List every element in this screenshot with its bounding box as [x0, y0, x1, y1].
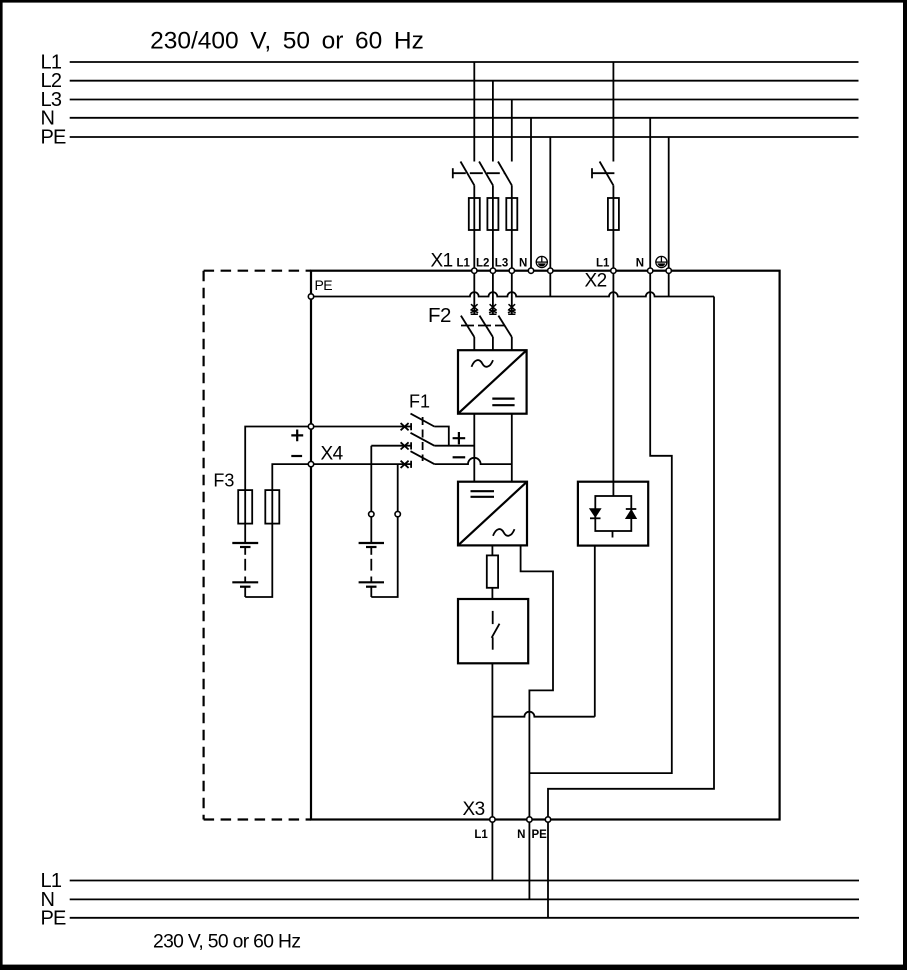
wire: F2 L2 to rectifier — [492, 337, 494, 350]
minus sign at DC link — [453, 456, 466, 458]
X4 terminal minus — [308, 461, 313, 466]
wire: X2 L1 to static switch — [612, 271, 614, 482]
F2 pole L3 blade — [498, 316, 511, 337]
L1 bus (bottom) — [70, 880, 859, 882]
bypass switch blade — [600, 162, 614, 186]
fuse L1 (input) — [469, 198, 480, 230]
svg-text:X3: X3 — [463, 799, 485, 820]
battery cabinet dashed enclosure — [204, 271, 311, 820]
X1 terminal PE — [548, 268, 553, 273]
F2 pole L1 connector symbol — [470, 304, 478, 314]
F1 pole 2 connector symbol — [401, 442, 412, 449]
N bus (bottom) — [70, 898, 859, 900]
wire: F1 pole 2 to DC+ rail — [434, 445, 474, 447]
svg-text:X2: X2 — [585, 271, 607, 292]
svg-text:230 V, 50 or 60 Hz: 230 V, 50 or 60 Hz — [153, 932, 300, 953]
wire: inverter N out — [521, 545, 553, 819]
wire: X2 N drop with jog — [529, 271, 671, 773]
battery connector circle plus — [369, 511, 374, 516]
svg-text:L1: L1 — [596, 258, 610, 270]
svg-text:F3: F3 — [213, 471, 234, 491]
plus sign at X4 — [291, 430, 303, 442]
battery string 2 (external) — [359, 517, 384, 598]
wire: F1 pole 3 to DC- rail with hop — [434, 458, 512, 464]
svg-text:N: N — [636, 258, 644, 270]
X3 terminal L1 — [490, 817, 495, 822]
F2 arrester pole L1 wire — [473, 271, 475, 315]
svg-text:L3: L3 — [495, 258, 508, 270]
svg-text:L1: L1 — [457, 258, 471, 270]
wire: battery plus to F1 pole 2 — [371, 445, 411, 447]
fuse L2 (input) — [487, 198, 498, 230]
wire: bypass switch to fuse — [612, 185, 614, 270]
wire: PE bus down right side — [548, 297, 714, 820]
wire: X4 minus lead down to F3 — [272, 464, 311, 523]
wire: X3 N to output bus — [528, 820, 530, 900]
wire: output bus with hop over N — [492, 712, 594, 717]
X4 terminal plus — [308, 424, 313, 429]
L3 bus (top) — [70, 99, 859, 101]
svg-text:F2: F2 — [428, 304, 451, 327]
svg-text:X4: X4 — [321, 444, 344, 465]
X1 terminal L3 — [509, 268, 514, 273]
wire: main switch to fuses L1 — [473, 185, 475, 270]
fuse inverter output — [487, 555, 498, 587]
wire: L2 tap to main switch — [492, 81, 494, 162]
X2 terminal N — [648, 268, 653, 273]
svg-text:PE: PE — [41, 127, 67, 149]
F1 pole 3 blade — [411, 451, 435, 464]
PE bus (bottom) — [70, 917, 859, 919]
wire: L1 tap to bypass switch — [612, 62, 614, 162]
main switch pole L2 blade — [479, 162, 493, 186]
X1 terminal N — [528, 268, 533, 273]
svg-text:N: N — [519, 258, 527, 270]
svg-text:L1: L1 — [474, 829, 488, 841]
wire: external battery minus riser — [397, 464, 399, 512]
plus sign at DC link — [453, 432, 466, 444]
svg-text:X1: X1 — [431, 251, 453, 272]
F2 pole L2 connector symbol — [489, 304, 497, 314]
F1 pole 1 connector symbol — [401, 423, 412, 430]
wire: X4 plus lead down to F3 — [245, 427, 311, 544]
DC+ rail rectifier to inverter — [473, 414, 475, 482]
inverter U2 box — [458, 482, 527, 546]
X1 terminal L1 — [472, 268, 477, 273]
X3 terminal PE — [545, 817, 550, 822]
svg-text:N: N — [517, 829, 525, 841]
battery connector circle minus — [395, 511, 400, 516]
minus sign at X4 — [291, 455, 302, 457]
fuse F3 negative lead — [265, 490, 279, 523]
battery string 1 (in cabinet) — [232, 543, 258, 597]
rectifier U1 box — [458, 350, 527, 414]
F1 pole 3 connector symbol — [401, 461, 412, 468]
bypass switch T-bar tick — [591, 168, 593, 178]
F2 arrester pole L2 wire — [492, 271, 494, 315]
UPS cabinet enclosure box — [311, 271, 780, 820]
F2 pole L3 connector symbol — [508, 304, 516, 314]
wire: X4 minus to F1 pole 3 — [311, 463, 411, 465]
svg-text:L2: L2 — [476, 258, 489, 270]
L2 bus (top) — [70, 80, 859, 82]
thyristor V2 (right, conducting up) — [626, 509, 637, 519]
F1 pole 1 blade — [411, 414, 435, 427]
wire: X4 plus to F1 — [311, 426, 411, 428]
wire: F2 L1 to rectifier — [473, 337, 475, 350]
DC- rail rectifier to inverter — [511, 414, 513, 482]
wire: N tap to X1 — [530, 118, 532, 271]
wire: battery string 1 bottom return — [245, 524, 272, 597]
X2 earth terminal symbol — [656, 256, 667, 267]
fuse L3 (input) — [506, 198, 517, 230]
N bus (top) — [70, 117, 859, 119]
internal PE node circle — [308, 294, 313, 299]
X2 terminal PE — [666, 268, 671, 273]
wire: N tap to X2 — [649, 118, 651, 271]
wire: F2 L3 to rectifier — [511, 337, 513, 350]
wire: X3 PE to output bus — [547, 820, 549, 918]
wire: X1 PE terminal to PE bus — [549, 271, 551, 297]
wire: contactor to X3 L1 — [491, 663, 493, 819]
bypass switch linkage — [592, 172, 614, 174]
main switch pole L3 blade — [498, 162, 512, 186]
F2 pole L1 blade — [461, 316, 474, 337]
wire: battery string 2 bottom return — [371, 517, 397, 598]
PE bus (top) — [70, 136, 859, 138]
internal PE bus with wire hops — [314, 292, 715, 296]
wire: main switch to fuses L3 — [511, 185, 513, 270]
wire: inverter output to fuse — [491, 545, 493, 555]
contactor K1 box — [458, 599, 528, 663]
thyristor V1 (left, conducting down) — [590, 509, 601, 519]
fuse F3 positive lead — [238, 490, 252, 523]
main switch pole L1 blade — [461, 162, 475, 186]
X1 earth terminal symbol — [536, 256, 547, 267]
wire: X2 PE terminal to PE bus — [668, 271, 670, 297]
wire: fuse to contactor — [491, 588, 493, 599]
svg-text:F1: F1 — [409, 392, 430, 412]
wire: PE tap to X1 — [549, 137, 551, 271]
svg-text:PE: PE — [315, 277, 333, 293]
L1 bus (top) — [70, 61, 859, 63]
X2 terminal L1 — [611, 268, 616, 273]
wire: static switch output drop — [594, 546, 596, 717]
F2 linkage (dashed) — [461, 325, 505, 327]
F2 arrester pole L3 wire — [511, 271, 513, 315]
main switch linkage (dashed) — [453, 172, 505, 174]
static switch U3 box — [578, 482, 648, 546]
wire: L1 tap to main switch — [473, 62, 475, 162]
wire: L3 tap to main switch — [511, 100, 513, 162]
wire: PE tap to X2 — [668, 137, 670, 271]
wire: main switch to fuses L2 — [492, 185, 494, 270]
wire: external battery plus riser — [370, 446, 372, 512]
F2 pole L2 blade — [480, 316, 493, 337]
X1 terminal L2 — [490, 268, 495, 273]
main switch T-bar tick — [452, 168, 454, 178]
svg-text:PE: PE — [532, 829, 548, 841]
F1 pole 2 blade — [411, 433, 435, 446]
wire: X3 L1 to output bus — [491, 820, 493, 881]
X3 terminal N — [527, 817, 532, 822]
svg-text:PE: PE — [41, 908, 67, 930]
svg-text:230/400 V, 50 or 60 Hz: 230/400 V, 50 or 60 Hz — [150, 28, 424, 55]
F1 linkage (dashed) — [422, 417, 424, 461]
fuse bypass line — [608, 198, 619, 230]
wire: F1 pole 1 step to DC+ node — [434, 427, 449, 446]
